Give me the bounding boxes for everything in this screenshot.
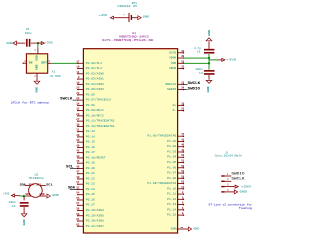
J1 pin 4 [221,189,229,193]
svg-text:+: + [123,14,125,17]
svg-text:P1.02: P1.02 [167,145,176,148]
svg-text:P0.12/TRACEDATA1: P0.12/TRACEDATA1 [86,124,115,128]
svg-text:P1.07: P1.07 [167,172,176,175]
pin P1.01 (pin 41) [167,138,185,143]
pin P0.23 (pin 51) [76,181,95,186]
pin P1.14 (pin 6) [167,207,184,212]
svg-text:CR2032 3V: CR2032 3V [117,5,137,8]
wire C5 to junction [31,42,38,44]
svg-text:57: 57 [76,202,80,205]
svg-text:VDD: VDD [171,62,177,65]
svg-text:P1.06: P1.06 [167,166,176,169]
svg-text:P1.05: P1.05 [167,161,176,164]
pin P1.04 (pin 50) [167,154,185,159]
svg-text:39: 39 [76,139,80,142]
svg-text:23: 23 [76,97,80,100]
wire J1 pin4 [225,191,235,193]
pin P1.05 (pin 53) [167,160,185,165]
svg-text:P0.03/AIN1: P0.03/AIN1 [86,77,104,81]
svg-text:C1: C1 [197,50,201,53]
wire supply vertical [208,54,210,70]
svg-text:X1: X1 [52,71,56,74]
svg-text:P1.04: P1.04 [167,156,176,159]
pin P0.00/XL1 (pin 17) [76,60,102,65]
svg-text:45: 45 [76,160,80,163]
svg-text:GND: GND [194,227,200,230]
svg-text:40: 40 [181,144,185,147]
power +3V0 J1 [235,185,251,188]
svg-text:P1.01: P1.01 [167,140,176,143]
svg-text:P0.28/AIN4: P0.28/AIN4 [86,208,104,212]
svg-text:61: 61 [76,218,80,221]
svg-text:52: 52 [76,186,80,189]
pin P0.25 (pin 54) [76,192,95,197]
svg-text:40: 40 [76,144,80,147]
svg-text:P0.10/NFC2: P0.10/NFC2 [86,113,104,117]
svg-text:P0.26: P0.26 [86,198,95,201]
svg-text:100n: 100n [195,68,203,71]
wire J1 pin3 [225,186,235,188]
pin P1.10 (pin 15) [167,186,185,191]
svg-text:D-: D- [173,109,177,112]
wire J1 pin2 [225,180,232,182]
svg-text:33: 33 [181,81,185,84]
svg-text:59: 59 [181,170,185,173]
svg-text:11: 11 [76,71,80,74]
pin P0.19 (pin 45) [76,160,95,165]
svg-text:SWDCLK: SWDCLK [165,83,176,86]
junction U2 VDD node [23,195,25,197]
pin P1.02 (pin 40) [167,144,185,149]
svg-text:36: 36 [181,50,185,53]
pin P1.15 (pin 8) [167,212,184,217]
svg-text:EN: EN [29,62,33,65]
J1 pin 1 [221,173,229,177]
ground below C4 [206,76,212,93]
pin SWDCLK (pin 33) [165,81,184,86]
pin D- (pin 25) [173,108,185,113]
svg-text:31: 31 [76,129,80,132]
pin P1.06 (pin 56) [167,165,185,170]
wire GND to C1 [208,42,210,49]
svg-text:P0.23: P0.23 [86,183,95,186]
wire battery right [132,17,137,19]
svg-text:C4: C4 [199,72,203,75]
label SWCLK left [60,96,78,100]
pin P0.02/AIN0 (pin 11) [76,71,104,76]
svg-text:VDDH: VDDH [169,57,176,60]
svg-text:34: 34 [181,87,185,90]
svg-text:DCCH: DCCH [169,51,176,54]
svg-text:32.768K: 32.768K [50,75,61,78]
pin P0.03/AIN1 (pin 9) [77,76,104,81]
wire C2 to GND [23,207,25,213]
ground U2 right [47,194,59,198]
svg-text:P0.17: P0.17 [86,151,95,154]
svg-text:29: 29 [76,113,80,116]
pin P0.22 (pin 48) [76,176,95,181]
pin P1.09/TRACEDATA3 (pin 63) [147,181,184,186]
svg-text:32TL-MDBT50Q-P512K-ND: 32TL-MDBT50Q-P512K-ND [102,38,154,42]
label SCL left [66,164,78,168]
svg-text:41: 41 [181,138,185,141]
wire X1 OUT to P0.00 [51,62,77,64]
pin P0.12/TRACEDATA1 (pin 30) [76,123,115,128]
pin P1.11 (pin 3) [167,191,184,196]
svg-text:D+: D+ [173,104,177,107]
svg-text:P1.13: P1.13 [167,203,176,206]
wire to +3V0 [209,59,218,61]
svg-text:P0.01/XL2: P0.01/XL2 [86,66,102,70]
power +3V0 supply node [216,56,237,62]
wire VDDH [183,57,209,59]
svg-text:VDD: VDD [36,55,39,61]
svg-text:P0.21: P0.21 [86,172,95,175]
svg-text:32: 32 [181,66,185,69]
svg-text:+3V0: +3V0 [45,42,53,45]
svg-text:LFCLK for RTC wakeup: LFCLK for RTC wakeup [11,100,50,104]
pin P0.01/XL2 (pin 18) [76,66,102,71]
svg-text:18: 18 [76,66,80,69]
svg-text:32: 32 [76,108,80,111]
svg-text:flashing: flashing [239,206,253,210]
pin P0.04/AIN2 (pin 10) [76,81,104,86]
svg-text:GND: GND [171,227,177,230]
pin P0.27 (pin 57) [76,202,95,207]
ground below C2 [21,214,27,226]
pin P0.29/AIN5 (pin 60) [76,213,104,218]
wire junction down to X1 [37,43,39,48]
svg-text:P0.16: P0.16 [86,146,95,149]
svg-text:50: 50 [180,226,183,229]
pin P0.21 (pin 47) [76,171,95,176]
ground J1 [234,190,247,194]
svg-text:38: 38 [76,134,80,137]
J1 pin 2 [221,178,229,182]
pin P0.06 (pin 22) [76,92,95,97]
svg-text:C5: C5 [26,28,30,31]
power +3V0 U2 [3,193,20,197]
svg-text:2: 2 [31,39,32,42]
svg-text:1: 1 [216,56,218,59]
svg-text:SDA: SDA [68,186,75,190]
pin P0.14 (pin 38) [76,134,95,139]
svg-text:GND: GND [240,190,248,193]
svg-text:MLX90614: MLX90614 [29,177,44,180]
pin P0.05/AIN3 (pin 25) [76,87,104,92]
svg-text:P0.04/AIN2: P0.04/AIN2 [86,82,104,86]
pin VBUS (pin 32) [169,66,185,71]
svg-text:55: 55 [76,197,80,200]
svg-text:P0.13: P0.13 [86,130,95,133]
svg-text:25: 25 [181,108,185,111]
svg-text:P0.06: P0.06 [86,93,95,96]
wire J1 pin1 [225,175,232,177]
wire battery left [114,17,128,19]
svg-text:10: 10 [76,81,80,84]
svg-text:P0.15: P0.15 [86,141,95,144]
svg-text:SCL: SCL [36,183,42,186]
pin GND U1 (pin 50) [171,226,189,230]
connector J1 [215,151,243,157]
wire C4 to GND [208,75,210,80]
svg-text:SWCLK: SWCLK [60,96,72,100]
svg-text:58: 58 [76,208,80,211]
svg-text:25: 25 [76,87,80,90]
svg-text:P0.20: P0.20 [86,167,95,170]
svg-text:26: 26 [181,175,185,178]
svg-text:GND: GND [23,219,26,225]
capacitor C5 [24,28,32,47]
pin P0.30/AIN6 (pin 61) [76,218,104,223]
svg-text:43: 43 [76,155,80,158]
svg-text:4: 4 [34,49,36,52]
ground X1 [34,81,40,92]
svg-text:P0.02/AIN0: P0.02/AIN0 [86,71,104,75]
ground battery [138,16,150,20]
capacitor C4 100n [195,68,214,75]
svg-text:P0.19: P0.19 [86,162,95,165]
svg-text:P0.30/AIN6: P0.30/AIN6 [86,219,104,223]
wire junction to C2 [23,196,25,200]
svg-text:P1.15: P1.15 [167,214,176,217]
power +3V0 battery [99,14,114,19]
svg-text:53: 53 [181,160,185,163]
svg-text:VBUS: VBUS [169,67,176,70]
svg-text:GND: GND [40,193,46,196]
svg-text:27: 27 [76,118,80,121]
pin P1.13 (pin 8) [167,202,184,207]
svg-text:50: 50 [181,154,185,157]
pin P0.31/AIN7 (pin 62) [76,223,104,228]
svg-text:SWDIO: SWDIO [188,86,200,90]
svg-text:24: 24 [76,102,80,105]
svg-text:2: 2 [34,75,36,78]
pin SWDIO (pin 34) [167,87,185,92]
svg-text:GND: GND [6,42,12,45]
svg-text:4: 4 [227,189,229,192]
svg-text:+3V0: +3V0 [226,58,236,61]
power +3V0 C5 node [38,42,53,45]
oscillator X1 [23,48,61,82]
svg-text:47: 47 [76,171,80,174]
pin P0.28/AIN4 (pin 58) [76,208,104,213]
note ST-Link [209,203,253,211]
pin P0.15 (pin 39) [76,139,95,144]
svg-text:P0.22: P0.22 [86,177,95,180]
svg-text:100n: 100n [25,32,32,35]
svg-text:P0.29/AIN5: P0.29/AIN5 [86,213,104,217]
IC U2 MLX90614 [24,173,47,197]
svg-text:GND: GND [143,16,150,19]
pin D+ (pin 35) [173,102,185,107]
svg-text:2: 2 [135,13,137,16]
svg-text:SDA: SDA [29,183,35,186]
pin VDDH (pin 30) [169,55,185,60]
svg-text:GND: GND [36,86,39,92]
svg-text:42: 42 [76,150,80,153]
svg-text:ST-Link v2 connection for: ST-Link v2 connection for [209,203,253,207]
pin P0.08 (pin 24) [76,102,95,107]
svg-text:OUT: OUT [41,62,47,65]
svg-text:P0.09/NFC1: P0.09/NFC1 [86,108,104,112]
pin P0.20 (pin 46) [76,165,95,170]
svg-text:1: 1 [227,173,229,176]
svg-text:SWDIO: SWDIO [231,171,244,175]
svg-text:VDD: VDD [25,193,31,196]
svg-text:62: 62 [76,223,80,226]
svg-text:SDA: SDA [20,183,26,186]
svg-text:1: 1 [119,13,121,16]
svg-text:54: 54 [76,192,80,195]
pin VDD (pin 28) [171,60,185,65]
svg-text:P1.09/TRACEDATA3: P1.09/TRACEDATA3 [147,181,176,185]
svg-text:51: 51 [76,181,80,184]
svg-text:P1.12: P1.12 [167,198,176,201]
svg-text:P0.18/RESET: P0.18/RESET [86,155,106,159]
label SWCLK right [183,81,200,85]
junction VDDH [208,57,210,59]
svg-text:+3V0: +3V0 [3,193,10,196]
svg-text:P0.27: P0.27 [86,204,95,207]
svg-text:3: 3 [49,60,51,63]
svg-text:SCL: SCL [46,183,53,186]
junction C5 node [37,42,39,44]
J1 pin 3 [221,184,229,188]
pin P1.00/TRACEDATA0 (pin 47) [147,133,184,138]
svg-text:P0.14: P0.14 [86,135,95,138]
svg-text:P0.11/TRACEDATA2: P0.11/TRACEDATA2 [86,119,115,123]
svg-text:22: 22 [76,92,80,95]
ground U1 GND pin [188,227,199,231]
pin P0.24 (pin 52) [76,186,95,191]
svg-text:GND: GND [207,86,210,92]
svg-text:P0.31/AIN7: P0.31/AIN7 [86,224,104,228]
svg-text:P0.25: P0.25 [86,193,95,196]
svg-text:GND: GND [52,194,59,197]
pin P0.10/NFC2 (pin 29) [76,113,104,118]
ground C5 [6,41,16,45]
pin P1.07 (pin 59) [167,170,185,175]
svg-text:3: 3 [227,184,229,187]
svg-text:100n: 100n [9,201,16,204]
svg-text:+3V0: +3V0 [99,14,107,17]
pin P0.16 (pin 40) [76,144,95,149]
svg-text:15: 15 [181,186,185,189]
pin P0.13 (pin 31) [76,129,95,134]
svg-text:2: 2 [210,76,211,79]
wire GND to C5 [17,42,26,44]
svg-text:GND: GND [36,64,39,70]
svg-text:P1.14: P1.14 [167,208,176,211]
pin P0.17 (pin 42) [76,150,95,155]
capacitor C1 4.7u [194,47,214,54]
svg-text:17: 17 [76,60,80,63]
pin P1.12 (pin 5) [167,196,184,201]
svg-text:P1.00/TRACEDATA0: P1.00/TRACEDATA0 [147,134,176,138]
junction VDD [208,62,210,64]
svg-text:C2: C2 [12,205,16,208]
pin P0.07/TRACECLK (pin 23) [76,97,111,102]
svg-text:30: 30 [76,123,80,126]
svg-text:Conn_01x04_Male: Conn_01x04_Male [215,154,243,158]
pin P0.09/NFC1 (pin 32) [76,108,104,113]
pin P0.26 (pin 55) [76,197,95,202]
ground above C1 [206,30,212,41]
pin P1.03 (pin 43) [167,149,185,154]
wire +3V0 to junction U2 [20,195,24,197]
svg-text:P1.11: P1.11 [167,193,176,196]
svg-text:47: 47 [181,133,185,136]
svg-text:35: 35 [181,102,185,105]
IC U1 MDBT50Q body [83,49,177,233]
svg-text:SWCLK: SWCLK [188,81,201,85]
svg-text:43: 43 [181,149,185,152]
svg-text:SWDIO: SWDIO [167,88,176,91]
svg-text:2: 2 [227,178,229,181]
svg-text:+3V0: +3V0 [241,185,251,188]
svg-text:P1.10: P1.10 [167,187,176,190]
pin P0.18/RESET (pin 43) [76,155,106,160]
svg-text:SCL: SCL [66,164,73,168]
svg-text:P1.03: P1.03 [167,150,176,153]
svg-text:9: 9 [78,76,80,79]
svg-text:GND: GND [208,30,211,36]
pin DCCH (pin 36) [169,50,185,55]
svg-text:P0.05/AIN3: P0.05/AIN3 [86,87,104,91]
svg-text:P0.08: P0.08 [86,104,95,107]
svg-text:56: 56 [181,165,185,168]
svg-text:60: 60 [76,213,80,216]
battery BT1 [117,2,137,22]
svg-text:SWCLK: SWCLK [231,177,244,181]
pin P1.08 (pin 26) [167,175,185,180]
wire VDD [183,62,209,64]
svg-text:63: 63 [181,181,185,184]
capacitor C2 100n [9,201,29,208]
label SWDIO right [183,86,200,90]
svg-text:P0.07/TRACECLK: P0.07/TRACECLK [86,98,111,102]
svg-text:P1.08: P1.08 [167,177,176,180]
label SDA left [68,186,78,190]
svg-text:P0.24: P0.24 [86,188,95,191]
svg-text:48: 48 [76,176,80,179]
svg-text:46: 46 [76,165,80,168]
svg-text:P0.00/XL1: P0.00/XL1 [86,61,102,65]
pin P0.11/TRACEDATA2 (pin 27) [76,118,115,123]
